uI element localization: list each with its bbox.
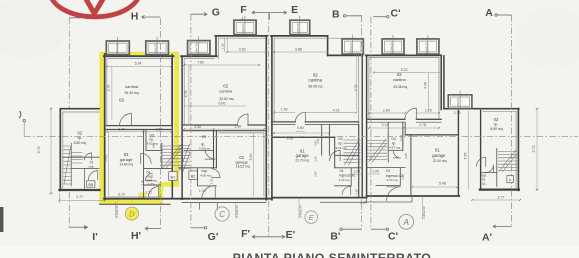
circle D (yellow) [125, 207, 138, 220]
door C garage entry [202, 186, 216, 200]
stairs left end unit [63, 146, 82, 184]
window box A1 [382, 39, 404, 54]
dim stub garage D door [115, 202, 117, 219]
svg-text:H: H [131, 11, 139, 23]
party wall E/A [362, 55, 366, 196]
svg-text:2.40x2.20: 2.40x2.20 [235, 205, 239, 218]
dim line 2.50/3.38 C [184, 128, 264, 130]
red stamp V [83, 0, 107, 14]
section line A [511, 15, 513, 227]
svg-text:rip.: rip. [494, 122, 499, 126]
svg-text:C': C' [391, 7, 401, 19]
unit A room 03 south [389, 149, 403, 151]
svg-text:1.38: 1.38 [220, 43, 224, 49]
apron lines outside garages [200, 202, 218, 209]
marker B arrow [346, 15, 362, 17]
door A room 03 [393, 150, 401, 158]
unit C top wall lower part [181, 55, 217, 57]
door C hall [211, 169, 220, 178]
svg-text:1.20x0.50: 1.20x0.50 [241, 23, 245, 35]
svg-text:F: F [240, 4, 247, 16]
section line F/E [268, 13, 270, 237]
unit D ingresso wall [144, 184, 161, 186]
unit E east wall [358, 125, 360, 197]
marker H' arrow [145, 228, 160, 230]
marker C' arrow [373, 16, 386, 18]
window box A2 [417, 39, 439, 54]
svg-text:5.22: 5.22 [401, 68, 408, 72]
svg-text:1.38: 1.38 [355, 189, 359, 195]
svg-text:cantina: cantina [393, 77, 407, 82]
right end unit inner faces [483, 111, 516, 188]
unit E top wall step [327, 36, 329, 56]
unit C cantina inner faces [184, 38, 265, 125]
svg-text:cantina: cantina [219, 89, 233, 94]
svg-text:A5: A5 [482, 178, 486, 182]
svg-text:18.52 mq: 18.52 mq [236, 165, 250, 169]
main bottom wall E [272, 197, 367, 199]
bottom wall outer face D [100, 203, 171, 205]
dim line 5.34 [107, 65, 172, 67]
main bottom wall D-C [104, 198, 272, 200]
dim line vert 4.78 [188, 65, 190, 125]
dim leader 1.00 pair [351, 173, 380, 175]
dim line 5.22 [374, 72, 441, 74]
svg-text:1.20x0.50: 1.20x0.50 [296, 23, 300, 35]
svg-text:B2: B2 [191, 174, 197, 179]
unit A partition stair/03 [403, 122, 405, 150]
svg-text:B': B' [330, 230, 340, 242]
svg-text:7.30: 7.30 [141, 179, 145, 185]
svg-text:cantina: cantina [125, 84, 139, 89]
svg-text:14.80 mq: 14.80 mq [119, 162, 133, 166]
party wall C/E [266, 36, 272, 200]
marker A' arrow [493, 226, 511, 228]
section line C' [370, 17, 372, 230]
window light-well boxes [106, 20, 472, 109]
door A hall entry [387, 187, 401, 201]
svg-text:6.00: 6.00 [218, 102, 225, 106]
unit E shaft walls [322, 125, 330, 156]
svg-text:cantina: cantina [309, 78, 323, 83]
door arcs [84, 108, 493, 201]
dimension tick marks [50, 51, 538, 201]
wall E cantina south [272, 121, 359, 123]
left end unit bottom wall [59, 189, 99, 191]
svg-text:D: D [129, 210, 135, 219]
svg-text:4.48: 4.48 [424, 82, 428, 89]
circle A [399, 214, 414, 229]
door A cantina-vestibule [405, 108, 416, 119]
dim line 2.77 left [59, 199, 105, 201]
unit D stair well edge [161, 143, 163, 169]
dim line 5.48 A [412, 186, 458, 188]
svg-text:ingr.: ingr. [89, 164, 95, 168]
label B1 [169, 172, 177, 181]
dim line 2.69/1.79 [369, 112, 439, 114]
circled unit letters [125, 207, 413, 229]
marker I top arrow [69, 17, 85, 19]
door E cantina-vestibule [295, 112, 305, 122]
unit E hall walls [335, 168, 363, 186]
section line B [361, 16, 363, 229]
label B2 [189, 171, 197, 180]
svg-text:4.06 mq: 4.06 mq [200, 173, 211, 177]
dim line vert 5.40 [253, 133, 255, 196]
svg-text:2.12: 2.12 [382, 123, 389, 127]
stairs right end unit [498, 150, 517, 172]
svg-text:3.20: 3.20 [239, 47, 246, 51]
door E room 03 [330, 150, 341, 161]
marker B' arrow [342, 228, 361, 230]
svg-text:2.69: 2.69 [383, 109, 390, 113]
svg-text:0.89: 0.89 [404, 153, 408, 159]
svg-text:02: 02 [494, 117, 499, 122]
section line H [159, 19, 161, 229]
svg-text:01: 01 [482, 182, 486, 186]
svg-text:4.67 mq: 4.67 mq [389, 145, 400, 149]
stairs unit D [162, 145, 182, 169]
svg-text:2.77: 2.77 [497, 195, 504, 199]
svg-text:1.70: 1.70 [199, 189, 206, 193]
window box D1 [106, 41, 129, 55]
svg-text:8.80 mq: 8.80 mq [74, 141, 86, 145]
left end unit hall walls [71, 168, 99, 190]
svg-text:E: E [291, 4, 298, 16]
svg-text:32.82 mq: 32.82 mq [219, 97, 233, 101]
right end unit hall walls [481, 149, 497, 187]
unit C top wall step [215, 36, 217, 56]
doors left end unit [88, 171, 97, 180]
unit C room 03 south wall [184, 149, 214, 151]
dim ext 2.77 left [58, 193, 60, 203]
unit D yellow door patch [138, 193, 145, 202]
left end unit room 02 south wall [63, 156, 99, 158]
marker F'/E' arrow line [252, 236, 284, 238]
unit D left wall [104, 54, 106, 200]
door D room 03 [141, 153, 152, 164]
svg-text:F': F' [241, 228, 250, 240]
door D ingresso [146, 173, 153, 180]
unit A stair well edge [387, 122, 389, 162]
marker G arrow [191, 13, 207, 15]
svg-text:3.97 mq: 3.97 mq [199, 147, 210, 151]
svg-text:garage: garage [432, 153, 446, 158]
wall A garage top [405, 134, 458, 136]
dim line 3.20 [227, 51, 266, 53]
svg-text:5.48: 5.48 [439, 181, 446, 185]
svg-text:B: B [332, 8, 340, 20]
svg-text:1.59: 1.59 [281, 108, 288, 112]
circle E [305, 211, 318, 224]
svg-text:G': G' [208, 231, 219, 243]
svg-text:1.22: 1.22 [145, 191, 152, 195]
svg-text:C': C' [388, 230, 398, 242]
unit E top wall right part [328, 54, 363, 56]
unit D room 03 walls [146, 130, 162, 151]
unit E room 03 south [335, 154, 359, 156]
left end unit outer walls [60, 109, 99, 191]
unit C partition 03/garage [214, 131, 217, 168]
svg-text:5.34: 5.34 [135, 62, 142, 66]
svg-text:B1: B1 [170, 174, 176, 179]
window box C1 [188, 41, 210, 55]
svg-text:H': H' [131, 230, 141, 242]
svg-text:22.40 mq: 22.40 mq [433, 159, 447, 163]
stair label boxes [87, 171, 514, 187]
dim ext F [226, 36, 228, 52]
svg-text:2.31: 2.31 [316, 138, 320, 144]
door D cantina-garage [120, 114, 132, 126]
dim line 1.59/4.21 [274, 111, 356, 113]
dim line vert 6.73 left [50, 109, 53, 194]
marker C'' arrow [371, 228, 386, 230]
section line I horizontal [24, 136, 578, 138]
wall E garage top [272, 136, 335, 138]
dim stub garage E door [298, 198, 300, 219]
unit E cantina inner faces [274, 38, 359, 124]
window box center ticks [118, 16, 460, 109]
section line I elbow [23, 122, 25, 137]
unit A hall walls [367, 168, 406, 186]
svg-text:A: A [402, 217, 409, 227]
dim line vert 2.44 [402, 128, 404, 146]
unit A right wall [441, 55, 444, 109]
unit D yellow highlight outline [102, 54, 177, 201]
svg-text:36.45 mq: 36.45 mq [308, 84, 322, 88]
svg-text:garage: garage [120, 157, 133, 162]
svg-text:1.72: 1.72 [147, 182, 154, 186]
svg-text:A': A' [482, 231, 492, 243]
unit E top wall [271, 35, 328, 37]
unit A cantina inner faces [369, 58, 439, 119]
svg-text:0.80: 0.80 [314, 171, 318, 177]
svg-text:2.19: 2.19 [210, 178, 214, 184]
svg-text:03: 03 [202, 135, 206, 139]
section letters [92, 4, 493, 243]
svg-text:rip.: rip. [77, 136, 82, 140]
unit D hall wall [144, 168, 173, 170]
svg-text:2.52: 2.52 [156, 127, 163, 131]
svg-text:2.72: 2.72 [118, 127, 125, 131]
wall C cantina/garage [182, 124, 266, 126]
dim line vert 4.48 [427, 73, 429, 112]
unit E partition garage/rooms [334, 137, 336, 168]
dim line 2.72/2.52 D [107, 131, 172, 133]
svg-text:1.00: 1.00 [372, 170, 379, 174]
svg-text:2.50: 2.50 [194, 125, 201, 129]
left end unit stair edge [70, 143, 72, 186]
main bottom wall A [367, 195, 460, 197]
svg-text:21.70 mq: 21.70 mq [295, 159, 309, 163]
section line I' vertical [68, 18, 70, 227]
svg-text:E': E' [286, 229, 296, 241]
svg-text:1.20x0.50: 1.20x0.50 [115, 43, 119, 55]
stairs unit C [179, 144, 190, 172]
svg-text:3.38: 3.38 [234, 125, 241, 129]
svg-text:2.78: 2.78 [454, 111, 461, 115]
svg-text:2.40x2.20: 2.40x2.20 [298, 205, 302, 218]
dim stub garage C door [235, 202, 237, 218]
dim line 0.80 [296, 130, 305, 132]
scanner edge artifact bottom-left [0, 207, 3, 232]
dim line vert 4.76 [111, 66, 113, 120]
wall A cantina south [367, 118, 442, 120]
marker I' arrow [69, 226, 85, 228]
party wall D/C [172, 55, 182, 200]
unit D garage east wall [143, 130, 145, 198]
label F box right end [507, 176, 513, 183]
svg-text:04: 04 [340, 169, 344, 173]
dim line vert 4.75 [355, 52, 357, 110]
unit D top wall [104, 55, 174, 57]
svg-text:4.75: 4.75 [354, 85, 358, 92]
window box C2 [234, 20, 256, 35]
circle C [215, 207, 229, 221]
svg-text:I': I' [92, 231, 97, 243]
marker G' arrow [191, 227, 205, 229]
svg-text:1.20: 1.20 [314, 156, 318, 162]
stairs unit A [367, 139, 387, 162]
unit A top wall [366, 54, 441, 56]
door E hall entry [342, 186, 351, 195]
window box E2 [342, 39, 363, 54]
dim line 2.77 right [472, 199, 520, 201]
svg-text:C: C [219, 210, 225, 219]
unit C hall walls [178, 168, 216, 186]
dim line 2.12/2.78 [369, 127, 439, 129]
svg-text:33.38 mq: 33.38 mq [393, 85, 407, 89]
svg-text:02: 02 [77, 131, 82, 136]
svg-text:5.45: 5.45 [104, 155, 108, 162]
svg-text:03: 03 [338, 137, 342, 141]
svg-text:2.78: 2.78 [419, 123, 426, 127]
right end unit left wall [480, 111, 482, 191]
right end unit bottom wall [480, 189, 519, 191]
unit D cantina inner faces [107, 58, 172, 125]
door C cantina-garage [238, 114, 248, 124]
svg-text:01: 01 [435, 148, 440, 153]
unit C garage inner faces [219, 133, 264, 196]
svg-text:A: A [485, 7, 493, 19]
marker H arrow [142, 16, 161, 18]
svg-text:6.73: 6.73 [37, 147, 41, 154]
dim line vert 5.45 [108, 132, 110, 196]
bottom wall outer face C [182, 201, 266, 203]
unit A garage west wall [410, 135, 412, 196]
svg-text:25.40 mq: 25.40 mq [125, 91, 139, 95]
section markers bottom [69, 225, 511, 239]
interior partition walls [63, 119, 497, 197]
svg-text:4.10 mq: 4.10 mq [387, 178, 398, 182]
svg-text:PIANTA PIANO SEMINTERRATO: PIANTA PIANO SEMINTERRATO [233, 251, 432, 258]
dim line 7.80 [184, 64, 259, 66]
doors right end unit [476, 157, 485, 166]
door C room 03 [205, 149, 216, 160]
wall D cantina/garage [105, 125, 173, 127]
dimension texts [37, 43, 536, 218]
svg-text:7.80: 7.80 [197, 60, 204, 64]
svg-text:G: G [212, 7, 220, 19]
svg-text:1.79: 1.79 [425, 109, 432, 113]
svg-text:6.95: 6.95 [464, 153, 468, 160]
svg-text:4.76: 4.76 [107, 85, 111, 92]
svg-text:1.20x0.50: 1.20x0.50 [195, 43, 199, 55]
marker I mini glyph [19, 111, 21, 119]
svg-text:0.80: 0.80 [297, 126, 304, 130]
svg-text:4.21: 4.21 [333, 108, 340, 112]
svg-text:3.36: 3.36 [286, 137, 293, 141]
window box D2 [146, 41, 169, 55]
svg-text:B5: B5 [88, 182, 94, 187]
svg-text:5.40: 5.40 [249, 154, 253, 161]
svg-text:2.44: 2.44 [399, 135, 403, 141]
window box E1 [290, 20, 310, 35]
marker F/E arrow line [252, 12, 286, 14]
dim line 3.36 E [274, 132, 329, 134]
unit A garage right wall [457, 111, 459, 197]
stairs unit E [344, 139, 361, 165]
dim line vert 6.73 right [536, 109, 539, 190]
dim stub garage A door [422, 196, 424, 220]
dim line vert 1.38 C [223, 38, 225, 52]
label B5 [87, 181, 95, 187]
svg-text:2.36: 2.36 [360, 201, 367, 205]
bottom wall inner face D [104, 196, 160, 198]
room labels [74, 72, 503, 186]
svg-text:2.40x2.20: 2.40x2.20 [422, 206, 426, 219]
svg-text:1.20x0.50: 1.20x0.50 [456, 97, 460, 109]
svg-text:2.40x2.20: 2.40x2.20 [115, 205, 119, 218]
section markers top [19, 11, 511, 122]
door D garage entry [148, 187, 159, 198]
right end unit top wall [444, 108, 519, 110]
svg-text:02: 02 [119, 97, 125, 102]
svg-text:8.80 mq: 8.80 mq [490, 127, 502, 131]
svg-text:03: 03 [391, 137, 395, 141]
svg-text:garage: garage [296, 153, 310, 158]
unit C top wall upper part [215, 35, 267, 37]
right end unit right wall [517, 109, 519, 191]
svg-text:3.00 mq: 3.00 mq [146, 178, 157, 182]
section line G [190, 14, 192, 228]
svg-text:6.73: 6.73 [532, 146, 536, 153]
svg-text:2.77: 2.77 [76, 195, 83, 199]
svg-text:2.72: 2.72 [118, 192, 125, 196]
svg-text:6.02 mq: 6.02 mq [336, 146, 347, 150]
left end unit top wall inner face [63, 112, 99, 189]
window box right-end [448, 95, 472, 109]
dim line 6.00 C [184, 105, 246, 107]
svg-text:6.02 mq: 6.02 mq [147, 142, 158, 146]
dim line vert 6.95 [467, 111, 469, 190]
svg-text:4.78: 4.78 [184, 91, 188, 98]
dimension lines [50, 36, 539, 220]
svg-text:3.88: 3.88 [295, 48, 302, 52]
marker A arrow [497, 14, 511, 16]
red stamp ellipse [50, 0, 140, 17]
svg-text:04: 04 [386, 169, 390, 173]
svg-text:4.10 mq: 4.10 mq [339, 178, 350, 182]
dim line 3.88 [274, 51, 328, 53]
